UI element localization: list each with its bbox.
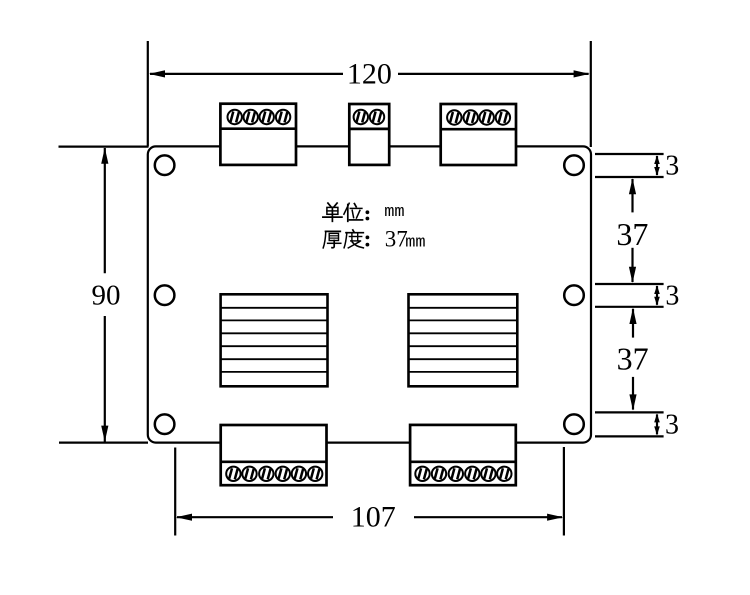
hanzi 度 (344, 230, 363, 248)
dim 90 extension line top (59, 146, 149, 148)
dim 120 dimension line (150, 73, 343, 75)
dim 90 extension line bottom (59, 442, 148, 444)
mounting hole bottom-left (155, 414, 175, 434)
dim 3 middle arrows (654, 285, 660, 306)
right extension lines hole pair top (595, 153, 664, 155)
terminal block top C (4 screws) (441, 104, 516, 165)
svg-text:37: 37 (617, 341, 649, 377)
right extension lines hole pair middle (595, 283, 664, 285)
dim 107 extension line left (174, 448, 176, 536)
dim 107 extension line right (563, 447, 565, 536)
dim 90 dimension line (104, 148, 106, 273)
mounting hole bottom-right (564, 414, 584, 434)
svg-text:mm: mm (384, 203, 404, 222)
mounting hole top-left (155, 155, 175, 175)
fullwidth colon line2 (366, 236, 370, 240)
board outline (148, 146, 591, 442)
fullwidth colon line1 (366, 210, 370, 214)
svg-text:3: 3 (665, 151, 679, 182)
hanzi 厚 (323, 231, 341, 248)
dim 3 bottom arrows (654, 414, 660, 436)
hanzi 单 (323, 203, 342, 221)
relay K2 (409, 294, 518, 386)
svg-text:37: 37 (616, 216, 648, 252)
screws of terminal block B (354, 110, 368, 124)
terminal block top B (2 screws) (349, 104, 389, 165)
screws of terminal block E (415, 467, 429, 481)
screws of terminal block C (447, 110, 461, 124)
mounting hole top-right (564, 155, 584, 175)
mounting hole mid-right (564, 285, 584, 305)
hanzi 位 (344, 203, 363, 221)
terminal block bottom E (6 screws) (410, 425, 516, 485)
screws of terminal block A (228, 110, 242, 124)
right extension lines hole pair bottom (595, 411, 664, 413)
svg-text:3: 3 (665, 410, 679, 441)
dim 3 top arrows (654, 155, 660, 176)
relay K1 (221, 294, 328, 386)
screws of terminal block D (226, 467, 240, 481)
note text line 2: 厚度：37mm (323, 226, 425, 252)
dim 37 lower (629, 308, 636, 411)
svg-text:107: 107 (351, 500, 396, 533)
svg-text:3: 3 (665, 281, 679, 312)
dim 120 extension line right (590, 41, 592, 147)
terminal block bottom D (6 screws) (221, 425, 327, 485)
svg-text:90: 90 (92, 280, 121, 312)
terminal block top A (4 screws) (220, 104, 296, 165)
dim 120 extension line left (147, 41, 149, 147)
note text line 1: 单位：mm (323, 203, 405, 222)
dim 107 dimension line (177, 516, 333, 518)
svg-text:mm: mm (405, 233, 425, 252)
mounting hole mid-left (155, 285, 175, 305)
svg-text:120: 120 (347, 57, 392, 90)
dim 37 upper (629, 178, 636, 283)
